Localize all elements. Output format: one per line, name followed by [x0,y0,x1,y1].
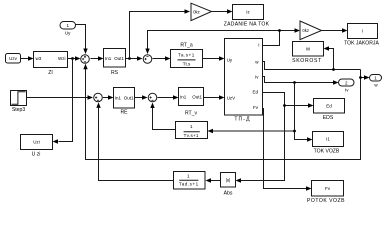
svg-text:I: I [258,43,259,48]
block RS [104,49,126,77]
junction dot I line [278,29,281,32]
svg-text:Fv: Fv [253,105,259,110]
svg-text:Tv.s+1: Tv.s+1 [184,133,199,138]
block EDS display [314,99,345,122]
svg-text:I1: I1 [326,137,330,142]
junction dot RS output [128,57,131,60]
sum S4 [148,93,157,102]
svg-text:Uzv: Uzv [9,56,17,61]
wire RS tap up to gain Okz1 [130,9,191,58]
wire S1 to RS [91,56,104,60]
wire RT_v to TPD port UzV [204,95,225,99]
gain Okz1 [191,3,212,20]
wire Abs to Tad [206,178,221,182]
wire TPD port Ed down, to EDS display and Abs [236,93,314,183]
svg-text:0kz: 0kz [302,28,309,33]
svg-text:Out1: Out1 [124,95,134,100]
svg-text:ТП-Д: ТП-Д [234,117,250,123]
outport oval w [370,75,382,88]
svg-text:TOK JAKORJA: TOK JAKORJA [344,41,379,47]
junction dot Iv line [293,81,296,84]
block W (SKOROST) [292,42,323,65]
wire Uy oval to sum S1 top [76,25,88,55]
wire ZI tap down to Uzi [53,59,73,144]
wire Uzv to ZI [21,56,34,60]
wire S3 to RT_a [153,56,171,60]
svg-text:I: I [362,29,363,34]
svg-text:In1: In1 [115,95,122,100]
svg-text:Abs: Abs [224,191,233,197]
block Step3 [11,91,27,114]
svg-text:Iv: Iv [345,88,349,93]
svg-text:SKOROST: SKOROST [292,58,322,64]
svg-text:RT_v: RT_v [185,111,198,117]
wire Step3 to sum S2 [27,95,94,99]
svg-text:EDS: EDS [323,115,334,121]
svg-text:UzV: UzV [227,96,236,101]
svg-text:U zi: U zi [32,152,41,158]
svg-text:RS: RS [111,70,119,76]
svg-text:Out1: Out1 [192,95,202,100]
block I1 display (TOK VOZB) [313,132,344,155]
gain Okz2 [300,21,322,40]
block RE [114,88,135,116]
block Iz [224,5,270,28]
outport oval Iv [339,79,355,93]
inport oval Uy [60,22,76,36]
svg-text:TOK VOZB: TOK VOZB [314,149,340,155]
svg-text:Ed: Ed [326,104,332,109]
sum S1 [81,55,90,64]
svg-text:Out1: Out1 [114,56,124,61]
wire TPD port I feedback and to gain Okz2 [145,28,300,54]
svg-text:ZI: ZI [48,70,53,76]
block Tad filter [174,172,206,190]
svg-text:In1: In1 [105,56,112,61]
wire Iv tap down to Tv filter and I1 [208,83,313,142]
block RT_v [179,88,204,117]
wire S4 to RT_v [158,95,179,99]
subsystem block TPD [225,39,263,123]
svg-text:In1: In1 [180,95,187,100]
junction dot w line at W display [332,68,335,71]
svg-text:POTOK VOZB: POTOK VOZB [307,198,345,204]
block Fv display (POTOK VOZB) [307,181,345,205]
svg-text:w3: w3 [36,56,42,61]
svg-text:0kz: 0kz [193,9,200,14]
wire TPD port Iv to oval Iv [263,77,339,85]
svg-text:ZADANIE NA TOK: ZADANIE NA TOK [224,22,270,28]
block RT_a [171,43,203,68]
svg-text:RE: RE [120,110,128,116]
block I (TOK JAKORJA) [344,24,379,47]
svg-text:Tt.s: Tt.s [183,61,191,66]
wire S2 to RE [103,95,114,99]
sum S3 [143,55,152,64]
svg-text:Fv: Fv [325,186,331,191]
svg-text:RT_a: RT_a [180,43,193,49]
svg-text:|u|: |u| [226,178,231,183]
svg-text:Uy: Uy [227,57,233,62]
block Uzv [6,54,21,64]
svg-text:Uy: Uy [65,31,71,36]
block ZI [34,52,68,77]
junction dot ZI output [71,57,74,60]
svg-text:Uzi: Uzi [33,140,40,145]
svg-text:Tad.s+1: Tad.s+1 [179,181,199,186]
svg-text:Step3: Step3 [12,107,25,113]
svg-text:Ed: Ed [252,89,258,94]
block Uzi display [21,135,53,158]
wire RT_a to TPD port Uy [203,56,225,60]
junction dot Ed line [283,104,286,107]
wire Tad to sum S2 bottom [96,102,173,180]
svg-text:w: w [374,83,378,88]
junction dot w line at oval [359,76,362,79]
wire ZI to sum S1 [68,56,81,60]
block Tv filter [176,122,208,139]
sum S2 [94,93,103,102]
junction dot Iv to Tv filter [293,130,296,133]
wire RE to sum S4 [135,95,148,99]
wire TPD port w to W block, oval w and speed feedback [83,46,369,159]
block Abs [221,173,236,197]
wire TPD port Fv down to Fv display [263,109,312,191]
wire gain Okz1 to Iz [211,9,233,13]
wire RS to sum S3 [126,56,143,60]
svg-text:Wzi: Wzi [58,56,66,61]
svg-text:Ta.s+1: Ta.s+1 [178,53,195,58]
wire gain Okz2 to block I [322,28,348,32]
wire Tv filter to sum S4 bottom [150,103,175,130]
